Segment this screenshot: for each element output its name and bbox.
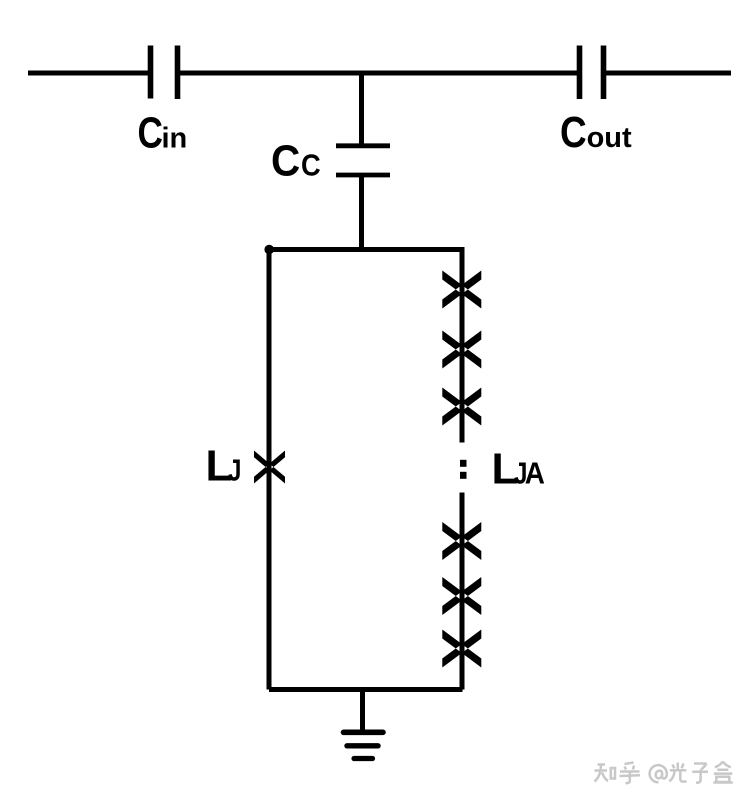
子 — [692, 764, 708, 783]
wire: ground stem — [360, 690, 365, 732]
wire: loop right side lower — [460, 493, 465, 690]
svg-text:C: C — [271, 136, 300, 185]
junction LJ (cross on left branch) — [254, 451, 285, 484]
光 — [669, 763, 686, 782]
junction array cross 6 — [442, 630, 481, 668]
label LJ — [206, 442, 242, 491]
label Cout — [560, 107, 632, 157]
junction array cross 1 — [442, 271, 481, 309]
watermark 知乎 @光子盒 — [595, 762, 733, 784]
乎 — [620, 763, 641, 784]
svg-text:J: J — [228, 453, 241, 488]
wire: loop bottom side — [269, 687, 463, 692]
label Cin — [138, 109, 188, 158]
wire: loop right side upper — [460, 247, 465, 443]
wire: loop top side — [269, 247, 463, 252]
wire: stub from feedline down to Cc — [359, 71, 364, 145]
capacitor Cin — [151, 46, 178, 100]
盒 — [713, 762, 733, 783]
junction array cross 4 — [442, 522, 481, 560]
capacitor Cout — [580, 46, 604, 100]
node: junction dot top-left corner — [264, 245, 274, 255]
capacitor Cc — [336, 146, 390, 175]
@ — [650, 765, 667, 782]
ellipsis dots on right branch — [460, 460, 467, 467]
svg-text:out: out — [587, 122, 632, 154]
svg-text:in: in — [162, 123, 188, 155]
wire: top feedline middle segment — [180, 71, 577, 76]
svg-text:C: C — [138, 109, 163, 158]
svg-text:A: A — [525, 456, 545, 491]
wire: from Cc down to loop top — [359, 175, 364, 251]
junction array cross 3 — [442, 388, 481, 426]
wire: loop left side — [267, 250, 272, 690]
label LJA — [492, 445, 545, 494]
ground — [344, 732, 384, 758]
junction array cross 2 — [442, 331, 481, 369]
label Cc — [271, 136, 321, 185]
svg-text:C: C — [560, 107, 587, 157]
junction array cross 5 — [442, 577, 481, 615]
知 — [595, 765, 616, 782]
svg-text:C: C — [301, 149, 321, 183]
wire: top feedline left segment — [28, 71, 148, 76]
wire: top feedline right segment — [606, 71, 731, 76]
